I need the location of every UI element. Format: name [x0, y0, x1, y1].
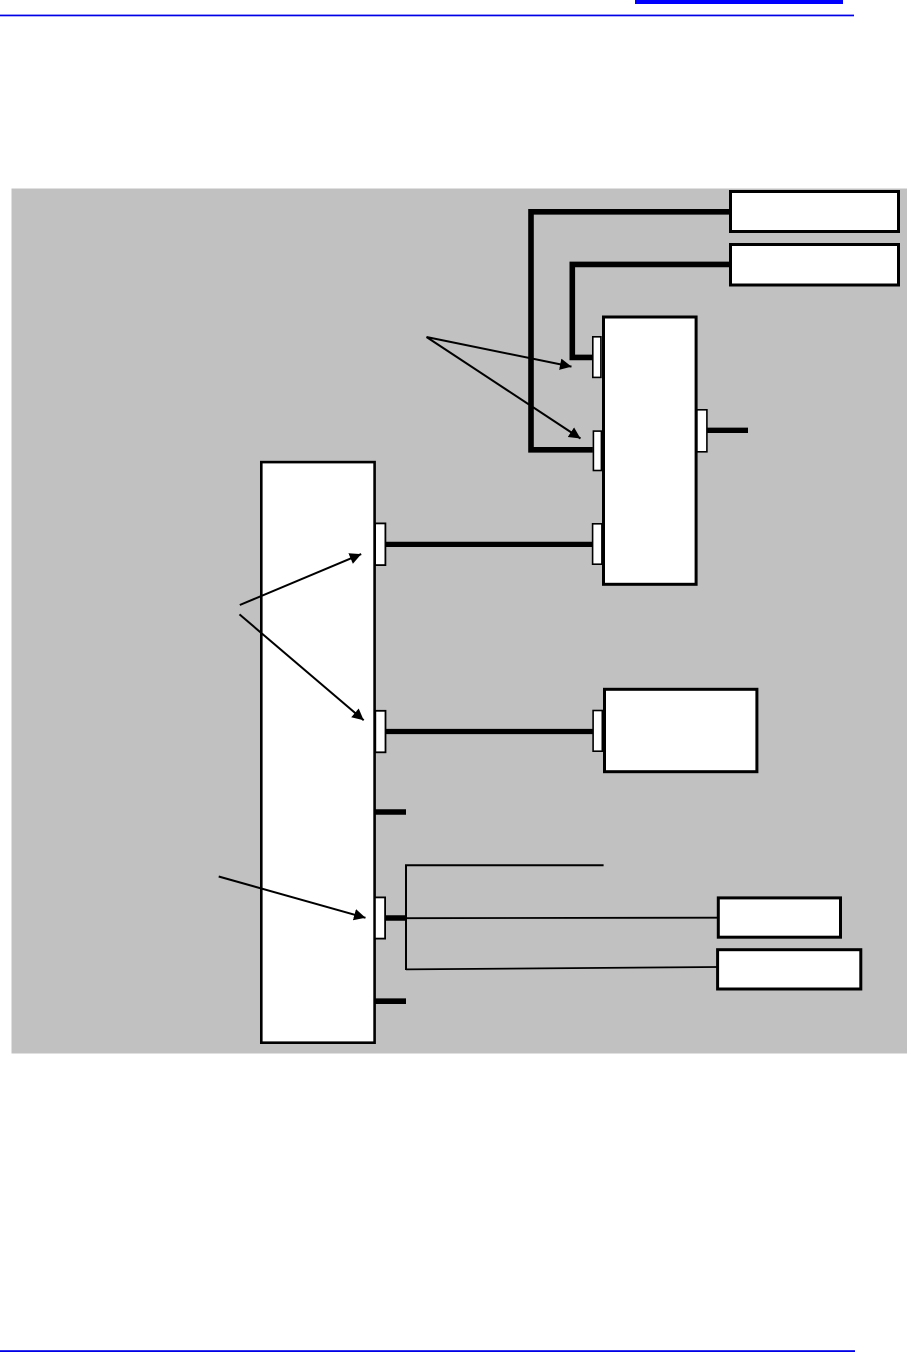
thin line to box7 [406, 967, 718, 969]
stub wire lower on left box [375, 998, 406, 1004]
stub wire upper on left box [375, 809, 406, 815]
wire left box to box5 connector [386, 729, 594, 734]
connector L2 on left box [375, 711, 385, 753]
callout arrow to connector L3 [219, 877, 366, 918]
box4 left tall [261, 462, 374, 1043]
gray figure background [12, 189, 907, 1054]
connector B on box3 left [593, 431, 601, 470]
box5 middle right [605, 689, 757, 771]
connector L3 small on left box [375, 897, 385, 938]
footer rule [0, 1350, 855, 1352]
wire from small connector L3 [384, 915, 407, 920]
wire left box to connector C [386, 542, 593, 547]
connector on box5 left [593, 711, 602, 752]
thin bracket line [406, 865, 604, 970]
callout arrow to connector A [427, 337, 572, 367]
thin line to box6 [406, 917, 718, 920]
box3 tall middle right [604, 317, 697, 584]
callout arrow to connector L2 [240, 614, 364, 720]
connector A on box3 left [593, 337, 601, 378]
box6 bottom right upper [718, 898, 840, 937]
box1 top right [731, 192, 899, 232]
stub wire right of box3 [704, 428, 748, 433]
connector R on box3 right [697, 410, 707, 452]
box7 bottom right lower [718, 950, 861, 989]
callout arrow to connector B [427, 337, 581, 439]
top link highlight bar [635, 0, 843, 4]
connector L1 on left box [375, 523, 385, 565]
wire from box2 to connector A [572, 264, 729, 357]
box2 below box1 [731, 245, 899, 286]
wire from box1 to connector B [531, 212, 729, 450]
header rule [0, 15, 854, 17]
callout arrow to connector L1 [240, 554, 361, 605]
connector C on box3 left [593, 524, 602, 564]
